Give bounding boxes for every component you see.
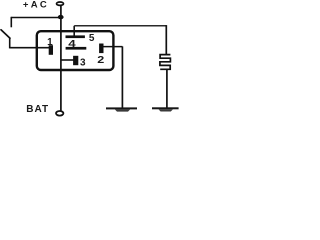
svg-text:1: 1: [47, 37, 53, 48]
svg-text:2: 2: [97, 55, 105, 66]
svg-text:5: 5: [89, 33, 95, 44]
svg-text:BAT: BAT: [26, 104, 49, 115]
svg-text:+AC: +AC: [23, 0, 49, 11]
svg-text:4: 4: [68, 39, 76, 50]
svg-text:3: 3: [80, 58, 86, 69]
